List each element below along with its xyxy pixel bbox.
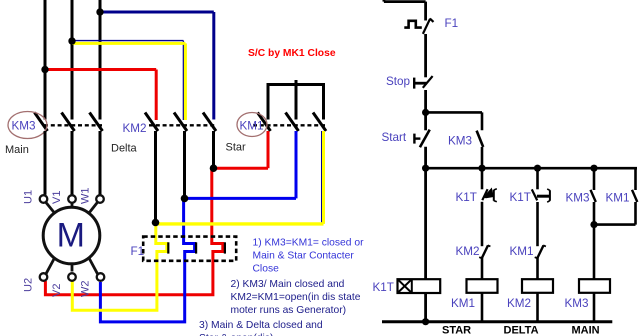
svg-text:W1: W1 xyxy=(80,188,92,205)
svg-text:F1: F1 xyxy=(445,17,459,30)
svg-text:KM3: KM3 xyxy=(565,297,589,310)
svg-text:Close: Close xyxy=(253,264,280,275)
svg-text:STAR: STAR xyxy=(442,325,471,336)
svg-text:V2: V2 xyxy=(51,284,63,297)
svg-text:Main & Star Contacter: Main & Star Contacter xyxy=(253,251,355,262)
svg-text:MAIN: MAIN xyxy=(572,325,600,336)
svg-text:KM3: KM3 xyxy=(448,135,472,148)
svg-text:U2: U2 xyxy=(23,278,35,292)
svg-text:KM1: KM1 xyxy=(606,192,630,205)
svg-text:KM2: KM2 xyxy=(507,297,531,310)
svg-text:K1T: K1T xyxy=(456,191,477,204)
svg-text:KM3: KM3 xyxy=(566,192,590,205)
svg-text:Stop: Stop xyxy=(386,75,411,88)
svg-text:DELTA: DELTA xyxy=(504,325,539,336)
svg-text:KM2=KM1=open(in dis state: KM2=KM1=open(in dis state xyxy=(231,292,361,303)
svg-text:K1T: K1T xyxy=(373,281,394,294)
svg-text:M: M xyxy=(57,217,85,255)
svg-text:S/C by MK1 Close: S/C by MK1 Close xyxy=(248,48,336,59)
svg-text:W2: W2 xyxy=(80,281,92,298)
svg-text:KM3: KM3 xyxy=(12,120,36,133)
svg-text:KM1: KM1 xyxy=(451,297,475,310)
svg-text:KM1: KM1 xyxy=(510,245,534,258)
svg-text:3) Main & Delta closed and: 3) Main & Delta closed and xyxy=(199,320,323,331)
svg-text:F1: F1 xyxy=(131,245,145,258)
svg-text:Start: Start xyxy=(382,131,407,144)
svg-text:Main: Main xyxy=(5,144,29,156)
svg-text:1) KM3=KM1= closed or: 1) KM3=KM1= closed or xyxy=(253,238,365,249)
svg-text:K1T: K1T xyxy=(510,191,531,204)
svg-text:Star: Star xyxy=(226,142,247,154)
svg-text:KM1: KM1 xyxy=(240,120,264,133)
svg-text:KM2: KM2 xyxy=(123,122,147,135)
svg-text:V1: V1 xyxy=(51,191,63,204)
svg-text:KM2: KM2 xyxy=(456,245,480,258)
svg-text:Delta: Delta xyxy=(111,143,138,155)
svg-text:moter runs as Generator): moter runs as Generator) xyxy=(231,305,347,316)
svg-text:2) KM3/ Main closed and: 2) KM3/ Main closed and xyxy=(231,279,345,290)
svg-text:U1: U1 xyxy=(23,190,35,204)
